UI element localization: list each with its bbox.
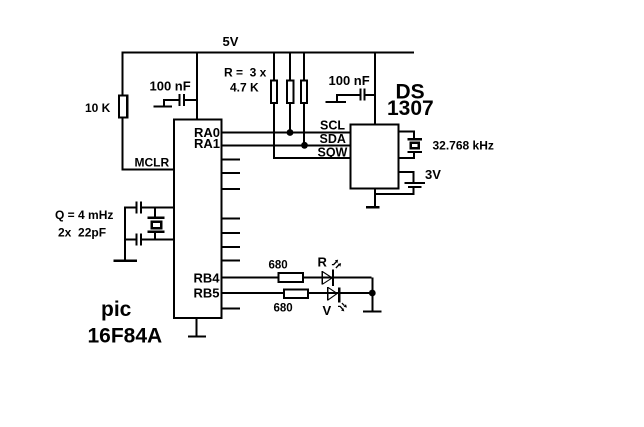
svg-text:680: 680 xyxy=(274,303,293,315)
svg-text:100 nF: 100 nF xyxy=(150,79,191,94)
svg-text:RB4: RB4 xyxy=(194,271,221,286)
wire pin stub right 3 xyxy=(223,188,241,190)
wire 5V power rail xyxy=(122,52,415,54)
ground PIC xyxy=(188,336,206,338)
crystal Y1 32.768 kHz xyxy=(407,132,422,157)
svg-text:2x 22pF: 2x 22pF xyxy=(58,226,106,240)
svg-text:5V: 5V xyxy=(223,34,239,49)
svg-text:Q = 4 mHz: Q = 4 mHz xyxy=(55,208,113,222)
wire PIC Vdd vertical xyxy=(196,54,198,120)
wire pin stub right 8 xyxy=(223,308,241,310)
wire pin stub right 6 xyxy=(223,246,241,248)
resistor R3 pullup 2 4.7K xyxy=(289,54,291,81)
resistor R2 pullup 1 4.7K xyxy=(273,54,275,81)
resistor R4 pullup 3 4.7K xyxy=(303,54,305,81)
crystal Q1 4MHz xyxy=(148,209,165,239)
node SDA junction dot xyxy=(301,142,308,149)
LED D1 R xyxy=(321,260,341,287)
svg-text:R: R xyxy=(318,255,328,270)
capacitor C3 22pF bottom xyxy=(124,233,174,245)
capacitor C4 100 nF xyxy=(326,89,375,104)
battery BT1 3V xyxy=(405,182,425,188)
ground caps xyxy=(114,260,138,262)
wire DS1307 ground stub xyxy=(374,189,376,207)
capacitor C1 100 nF xyxy=(154,94,197,108)
ground DS1307 xyxy=(366,206,380,208)
wire pin stub right 7 xyxy=(223,260,241,262)
wire X2 pin xyxy=(399,157,416,159)
svg-text:3V: 3V xyxy=(425,167,441,182)
wire pin stub right 2 xyxy=(223,172,241,174)
wire pin stub right 4 xyxy=(223,218,241,220)
svg-text:1307: 1307 xyxy=(387,97,434,120)
wire SDA line RA1 xyxy=(223,144,351,146)
wire left vertical from rail to 10K xyxy=(122,54,124,96)
svg-text:680: 680 xyxy=(269,260,288,272)
svg-text:SDA: SDA xyxy=(320,132,346,146)
svg-text:pic: pic xyxy=(101,298,132,321)
wire MCLR horizontal xyxy=(122,169,176,171)
svg-text:RB5: RB5 xyxy=(194,286,220,301)
op-amp U1 PIC16F84A box xyxy=(174,120,222,319)
svg-text:16F84A: 16F84A xyxy=(88,325,163,348)
svg-text:4.7 K: 4.7 K xyxy=(230,81,259,95)
wire caps left vertical xyxy=(124,207,126,260)
LED D2 V xyxy=(327,287,347,311)
wire PIC ground stub xyxy=(196,319,198,336)
svg-text:100 nF: 100 nF xyxy=(329,73,370,88)
wire RB4 line xyxy=(223,277,372,279)
svg-text:SQW: SQW xyxy=(318,146,348,160)
wire SQW line xyxy=(273,157,350,159)
wire RB5 line xyxy=(223,292,370,294)
wire pin stub right 1 xyxy=(223,159,241,161)
resistor R1 10 K xyxy=(119,96,127,118)
svg-text:MCLR: MCLR xyxy=(135,156,170,170)
op-amp U2 DS1307 box xyxy=(351,125,399,189)
wire Vbat pin xyxy=(399,171,415,173)
svg-text:SCL: SCL xyxy=(320,119,345,133)
resistor R5 680 xyxy=(279,273,304,282)
wire SCL line RA0 xyxy=(223,132,351,134)
ground LED xyxy=(363,310,382,312)
wire LED output vertical xyxy=(371,278,373,312)
wire X1 pin xyxy=(399,130,416,132)
svg-text:RA1: RA1 xyxy=(194,136,220,151)
wire pin stub right 5 xyxy=(223,232,241,234)
capacitor C2 22pF top xyxy=(124,202,174,214)
svg-text:10 K: 10 K xyxy=(85,101,111,115)
svg-text:32.768 kHz: 32.768 kHz xyxy=(433,139,494,153)
svg-text:V: V xyxy=(323,303,332,318)
wire 10K to MCLR xyxy=(122,118,124,171)
node SCL junction dot xyxy=(287,129,294,136)
node LED junction dot xyxy=(369,290,376,297)
svg-text:R = 3 x: R = 3 x xyxy=(224,66,267,80)
resistor R6 680 xyxy=(284,290,308,299)
wire DS1307 Vcc vertical xyxy=(374,54,376,125)
wire battery return xyxy=(376,193,415,195)
